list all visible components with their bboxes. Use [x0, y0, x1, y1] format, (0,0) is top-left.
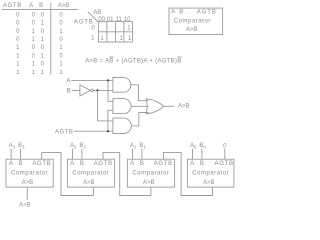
svg-text:B: B	[179, 10, 183, 16]
svg-text:0: 0	[223, 143, 227, 149]
inverter	[80, 85, 90, 96]
svg-text:1: 1	[16, 45, 20, 51]
wire B0	[201, 149, 203, 160]
svg-text:1: 1	[32, 29, 36, 35]
wire U5 out to U4 AGTB	[164, 152, 213, 195]
wire A2	[72, 149, 74, 160]
svg-text:A: A	[171, 10, 175, 16]
svg-text:AGTB: AGTB	[3, 3, 22, 9]
svg-text:0: 0	[16, 12, 20, 18]
svg-text:A2: A2	[70, 143, 77, 149]
and-gate G1	[113, 78, 131, 93]
svg-text:B: B	[18, 161, 22, 167]
truth table header	[3, 3, 69, 9]
svg-text:1: 1	[41, 70, 45, 76]
svg-text:1: 1	[16, 62, 20, 68]
svg-text:Comparator: Comparator	[192, 171, 229, 177]
svg-text:AGTB: AGTB	[32, 161, 51, 167]
wire 0 to U5 AGTB	[224, 149, 226, 160]
svg-text:1: 1	[59, 45, 63, 51]
svg-text:B: B	[140, 161, 144, 167]
wire AGTB input	[74, 130, 113, 132]
K-map corner diagonal	[88, 12, 99, 22]
svg-text:1: 1	[127, 26, 131, 32]
and-gate G2	[113, 99, 131, 114]
svg-text:AGTB: AGTB	[215, 161, 234, 167]
svg-text:Comparator: Comparator	[11, 171, 48, 177]
wire U3 output	[93, 187, 95, 195]
svg-text:1: 1	[41, 53, 45, 59]
svg-text:A0: A0	[190, 143, 197, 149]
svg-text:1: 1	[128, 36, 132, 42]
wire OR output	[164, 105, 174, 107]
svg-text:0: 0	[32, 53, 36, 59]
wire G1 output to OR	[131, 85, 149, 101]
svg-text:0: 0	[59, 12, 63, 18]
truth table vertical divider	[50, 3, 52, 75]
svg-text:1: 1	[32, 70, 36, 76]
wire U2 output	[26, 187, 28, 200]
svg-text:1: 1	[32, 37, 36, 43]
svg-text:A>B: A>B	[203, 180, 215, 186]
svg-text:A1: A1	[130, 143, 137, 149]
svg-text:1: 1	[59, 62, 63, 68]
svg-text:AGTB: AGTB	[94, 161, 113, 167]
comparator block U3 (bits 2)	[67, 159, 114, 187]
svg-text:B: B	[80, 161, 84, 167]
svg-text:1: 1	[41, 21, 45, 27]
svg-text:A3: A3	[9, 143, 16, 149]
node A junction	[107, 79, 109, 81]
svg-text:A>B: A>B	[178, 103, 190, 109]
svg-text:0: 0	[59, 21, 63, 27]
wire U5 output	[212, 187, 214, 195]
wire A branch to gate2	[108, 80, 113, 101]
svg-text:A>B: A>B	[22, 180, 34, 186]
wire Bbar	[93, 89, 113, 91]
K-map grid	[98, 22, 132, 42]
svg-text:0: 0	[16, 29, 20, 35]
comparator block U2 (bits 3)	[6, 159, 53, 187]
svg-text:1: 1	[59, 70, 63, 76]
svg-text:0: 0	[16, 37, 20, 43]
node AGTB junction	[107, 130, 109, 132]
wire A input	[71, 79, 113, 81]
svg-text:0: 0	[32, 12, 36, 18]
svg-text:1: 1	[41, 37, 45, 43]
node Bbar junction	[96, 89, 98, 91]
svg-text:Comparator: Comparator	[132, 171, 169, 177]
svg-text:AGTB: AGTB	[154, 161, 173, 167]
svg-text:A>B: A>B	[58, 3, 70, 9]
truth table header underline	[2, 8, 78, 10]
svg-text:0: 0	[59, 37, 63, 43]
wire B3	[20, 149, 22, 160]
wire B2	[81, 149, 83, 160]
wire G2 output to OR	[131, 105, 149, 107]
svg-text:0: 0	[92, 26, 96, 32]
svg-text:A>B: A>B	[186, 27, 198, 33]
U1 pin labels	[171, 10, 217, 16]
svg-text:A: A	[190, 161, 194, 167]
wire A1	[132, 149, 134, 160]
svg-text:1: 1	[32, 62, 36, 68]
svg-text:AB: AB	[93, 10, 101, 16]
wire A0	[192, 149, 194, 160]
svg-text:0: 0	[41, 12, 45, 18]
svg-text:A: A	[66, 79, 70, 85]
comparator block U4 (bits 1)	[127, 159, 174, 187]
wire G3 output to OR	[131, 113, 148, 126]
svg-text:B3: B3	[18, 143, 25, 149]
svg-text:B: B	[67, 88, 71, 94]
svg-text:B0: B0	[199, 143, 206, 149]
svg-text:Comparator: Comparator	[72, 171, 109, 177]
svg-text:1: 1	[16, 70, 20, 76]
K-map cell minterms	[100, 26, 132, 43]
svg-text:A: A	[29, 3, 33, 9]
and-gate G3	[113, 118, 131, 134]
svg-text:A: A	[70, 161, 74, 167]
wire U3 out to U2 AGTB	[42, 152, 94, 195]
wire A3	[10, 149, 12, 160]
svg-text:0: 0	[41, 45, 45, 51]
svg-text:1: 1	[59, 29, 63, 35]
wire Bbar branch to gate3	[98, 90, 113, 121]
svg-text:B: B	[200, 161, 204, 167]
svg-text:0: 0	[41, 62, 45, 68]
svg-text:0: 0	[59, 53, 63, 59]
wire AGTB branch to gate2	[108, 110, 113, 131]
comparator block symbol U1	[169, 8, 223, 34]
svg-text:A>B = AB + (AGTB)A + (AGTB)B: A>B = AB + (AGTB)A + (AGTB)B	[85, 59, 181, 65]
K-map column labels	[98, 17, 131, 23]
svg-text:1: 1	[120, 36, 124, 42]
or-gate G4	[146, 99, 164, 114]
svg-text:0: 0	[32, 45, 36, 51]
wire B1	[141, 149, 143, 160]
svg-text:A>B: A>B	[143, 180, 155, 186]
svg-text:A>B: A>B	[83, 180, 95, 186]
wire U4 out to U3 AGTB	[103, 152, 151, 195]
svg-text:A: A	[9, 161, 13, 167]
svg-text:0: 0	[32, 21, 36, 27]
comparator block U5 (bits 0)	[187, 159, 234, 187]
svg-text:B1: B1	[139, 143, 146, 149]
svg-text:A: A	[130, 161, 134, 167]
truth table rows	[16, 12, 63, 75]
svg-text:A>B: A>B	[19, 203, 31, 209]
wire U4 output	[150, 187, 152, 195]
wire B input	[72, 89, 80, 91]
svg-text:0: 0	[16, 21, 20, 27]
boolean equation	[85, 57, 181, 65]
svg-text:Comparator: Comparator	[174, 19, 211, 25]
svg-text:1: 1	[91, 35, 95, 41]
svg-text:0: 0	[41, 29, 45, 35]
svg-text:B2: B2	[79, 143, 86, 149]
svg-text:1: 1	[16, 53, 20, 59]
svg-text:B: B	[39, 3, 43, 9]
svg-text:AGTB: AGTB	[55, 130, 74, 136]
svg-text:AGTB: AGTB	[197, 10, 217, 16]
svg-text:1: 1	[100, 36, 104, 42]
